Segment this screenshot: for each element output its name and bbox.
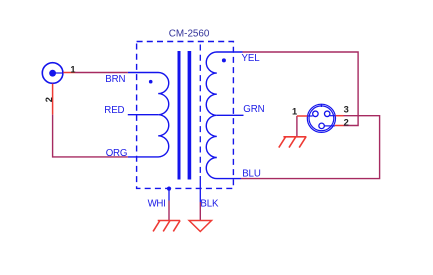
J2 pin circle 2 (bottom) [319, 123, 325, 128]
J2 pin 3 stub [336, 115, 344, 117]
svg-text:3: 3 [344, 105, 349, 115]
wire WHI to ground [168, 201, 170, 221]
T1 primary polarity dot [149, 80, 153, 84]
svg-text:1: 1 [70, 64, 75, 74]
T1 primary winding (left) [128, 73, 169, 157]
svg-text:GRN: GRN [243, 104, 264, 115]
T1 shield pin BLK (solid, exits box bottom) [199, 176, 201, 202]
T1 primary RED tap lead [128, 114, 158, 116]
svg-text:2: 2 [344, 118, 349, 128]
connector J1 outer circle [42, 63, 63, 84]
J1 pin 2 stub [52, 84, 54, 115]
svg-text:WHI: WHI [148, 199, 166, 210]
svg-text:1: 1 [292, 106, 297, 116]
wire BRN net [75, 72, 128, 74]
J2 pin 1 tick [307, 115, 312, 117]
transformer T1 body (dashed box) [137, 42, 234, 189]
T1 pin WHI (stub below box with junction dot) [168, 189, 170, 201]
connector J2 outer circle [307, 104, 335, 132]
wire YEL net [243, 52, 359, 126]
svg-text:CM-2560: CM-2560 [169, 28, 210, 39]
J2 pin 3 tick [330, 115, 336, 117]
J1 pin 1 stub [63, 72, 75, 74]
J2 pin 2 stub [335, 125, 344, 127]
wire ORG net [53, 115, 128, 157]
svg-text:BLK: BLK [200, 199, 219, 210]
T1 secondary GRN tap lead [217, 114, 244, 116]
J2 pin circle 3 (top-right) [324, 111, 330, 117]
connector J1 center dot [49, 70, 56, 77]
J2 pin circle 1 (top-left) [313, 111, 319, 117]
svg-text:BLU: BLU [242, 168, 261, 179]
T1 shield divider (dashed) [199, 45, 201, 177]
T1 core bar right [188, 51, 192, 180]
T1 secondary winding (right) [206, 52, 242, 179]
J2 top keying notch [320, 104, 322, 107]
svg-text:YEL: YEL [242, 53, 261, 64]
connector J1 internal pin line [53, 72, 63, 74]
svg-text:RED: RED [104, 105, 124, 116]
ground (earth) under J2 pin 1 [279, 137, 307, 148]
T1 core bar left [178, 51, 181, 180]
J2 pin 2 tick [324, 125, 335, 127]
T1 secondary polarity dot [222, 58, 226, 62]
ground (power triangle) under BLK [189, 221, 211, 232]
J2 pin 1 stub [297, 115, 308, 117]
wire J2 pin1 to ground [296, 116, 298, 136]
ground (earth) under WHI [153, 221, 180, 232]
connector J2 inner circle [309, 106, 334, 131]
wire BLU net (pin3 to BLU) [241, 116, 380, 179]
svg-text:2: 2 [44, 97, 54, 102]
svg-text:BRN: BRN [105, 74, 125, 85]
junction dot WHI [167, 187, 171, 191]
wire BLK to ground [199, 202, 201, 220]
